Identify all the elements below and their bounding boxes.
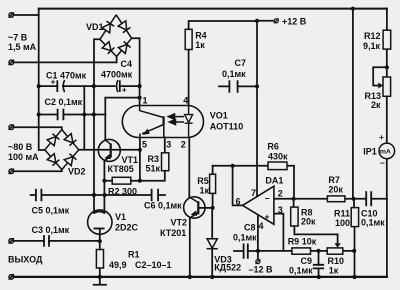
resistor R11 [351,208,358,227]
wire C5 C6 line [31,194,165,196]
wire DA1 output link [233,166,243,206]
node C1 line / V1 branch [92,84,96,88]
svg-text:2к: 2к [371,100,381,110]
svg-text:КД522: КД522 [214,263,241,273]
svg-text:–12 В: –12 В [249,265,274,275]
svg-text:+: + [265,212,270,222]
svg-text:3: 3 [278,205,283,215]
optocoupler VO1 body [122,106,203,138]
svg-text:0,1мк: 0,1мк [289,266,313,276]
svg-text:C7: C7 [235,58,247,68]
svg-text:R3: R3 [148,154,160,164]
diode VD3 [207,239,218,249]
svg-text:АОТ110: АОТ110 [210,122,243,132]
svg-text:R11: R11 [334,209,350,219]
node V1 cathode / R1 [98,239,102,243]
node C4 line right [138,84,142,88]
svg-text:51к: 51к [146,164,161,174]
optocoupler light arrows [168,114,184,125]
svg-text:4: 4 [259,221,264,231]
svg-text:−: − [265,194,270,204]
node C5 line / V1 right [103,193,107,197]
svg-text:+12 В: +12 В [282,17,307,27]
wire VT1 emitter vertical [103,161,105,213]
wire terminal ~7V lower to VD1 bottom vertex [14,57,117,63]
node C2 line left [37,112,41,116]
svg-text:C5 0,1мк: C5 0,1мк [32,206,70,216]
svg-text:C1 470мк: C1 470мк [46,71,87,81]
wire pin3 to R3 top [164,138,166,153]
tube V1 [88,210,112,234]
svg-text:2: 2 [278,189,283,199]
wire R8 drop [294,199,338,244]
wire branch C1 line to VD2 right vertex [83,86,85,150]
wire bottom rail [14,276,387,278]
terminal ~80V upper [9,125,14,130]
node pin1 junction [138,96,142,100]
svg-text:C4: C4 [121,59,133,69]
svg-text:C2 0,1мк: C2 0,1мк [45,97,83,107]
node pin5 / VT1 base [138,148,142,152]
wire C8 leads [234,250,258,252]
wire VD1 left vertex down to V1 [94,39,100,213]
node rail / R11 line [352,275,356,279]
wire DA1 pin4 to -12V [257,215,259,260]
svg-text:1к: 1к [329,266,339,276]
resistor R8 [291,207,298,226]
resistor R13 potentiometer [383,77,391,96]
capacitor C7 [229,80,237,93]
svg-text:R4: R4 [195,31,207,41]
wire C7 leads [219,85,257,87]
svg-text:mA: mA [380,149,391,156]
wire pin2 line to R7 [274,198,354,200]
capacitor C9 [313,265,324,269]
svg-text:R6: R6 [267,142,279,152]
svg-text:0,1мк: 0,1мк [233,233,257,243]
capacitor C2 [58,109,64,121]
wire feedback line R6 [213,166,294,199]
wire R3 bottom link [140,171,165,181]
terminal +12V [274,18,279,23]
svg-text:4: 4 [183,96,188,106]
node feedback / output [231,164,235,168]
wire pin5 vertical [139,138,141,181]
svg-text:~80 В: ~80 В [8,142,33,152]
resistor R9 [292,248,311,254]
capacitor C6 [152,189,159,202]
svg-text:+: + [379,132,384,142]
node +12V rail junction [255,19,259,23]
svg-text:С2–10–1: С2–10–1 [135,260,172,270]
wire top rail [39,8,387,10]
wire left vertical to VD2 left vertex [39,9,45,150]
terminal output lower [9,274,14,279]
wire R5 [212,166,214,208]
node R2 left / VT1 emitter [102,179,106,183]
resistor R12 [383,30,391,49]
wire meter chain [386,49,388,199]
op-amp DA1 [243,186,274,224]
node R7 / R11 / C10 [352,197,356,201]
node C2 line branch B [92,112,96,116]
svg-text:R10: R10 [328,256,345,266]
wire C9 [318,251,320,277]
resistor R5 [210,174,216,193]
wire pin3 down [274,214,284,251]
capacitor C4 [117,80,120,92]
svg-text:R12: R12 [364,31,381,41]
node top rail junction [351,7,355,11]
wire R13 wiper [373,67,387,85]
resistor R3 [162,153,169,171]
wire R11 vertical [353,199,356,277]
svg-text:~7 В: ~7 В [8,33,28,43]
wire VD1 right vertex down to optocoupler pin1 [132,38,140,105]
node C7 / pin7 line [255,84,259,88]
wire right top vertical [352,9,354,199]
svg-text:9,1к: 9,1к [363,41,381,51]
wire pin2 to VT2 collector [188,138,190,198]
node R12 / R13 wiper [385,65,389,69]
svg-text:2: 2 [181,140,186,150]
svg-text:VT2: VT2 [171,218,188,228]
meter IP1 [379,143,395,159]
svg-text:5: 5 [142,140,147,150]
wire C1 C4 line [39,85,140,87]
svg-text:КТ805: КТ805 [108,164,134,174]
node VT2 base / R5 / VD3 [211,206,215,210]
node rail / VD3 [210,275,214,279]
svg-text:C6 0,1мк: C6 0,1мк [144,201,182,211]
svg-text:R1: R1 [128,250,140,260]
svg-text:C9: C9 [301,256,313,266]
capacitor C8 [244,244,248,259]
resistor R2 [112,177,131,184]
bridge VD2 [45,130,79,170]
svg-text:DA1: DA1 [265,176,283,186]
wire output line C3 [14,240,100,242]
wire V1 cathode to R1 [99,229,101,250]
svg-text:VD2: VD2 [68,167,86,177]
wire C2 line [39,114,106,116]
resistor R1 [96,250,103,269]
svg-text:R2 300: R2 300 [108,187,137,197]
resistor R4 [185,29,192,49]
wire VD3 link [211,208,213,277]
terminal -12V [256,259,261,264]
wire R1 bottom to rail and ground [94,268,106,285]
node R9 / R10 / C9 [316,249,320,253]
svg-text:4700мк: 4700мк [101,70,133,80]
transistor VT2 [184,197,205,218]
svg-text:+: + [122,85,127,95]
svg-text:VD1: VD1 [86,22,104,32]
wire terminal ~7V upper [14,14,39,16]
svg-text:−: − [380,158,385,168]
svg-text:1к: 1к [200,186,210,196]
terminal ~7V upper [9,12,14,17]
bridge VD1 [100,15,132,57]
wire pin1 to VT1 collector [105,98,139,141]
node R10 right [352,249,356,253]
svg-text:0,1мк: 0,1мк [222,69,246,79]
capacitor C1 [57,80,64,92]
svg-text:R5: R5 [197,176,209,186]
svg-text:C8: C8 [244,223,256,233]
svg-text:IP1: IP1 [363,147,377,157]
wire VD2 right vertex base line to pin5 [79,149,140,151]
svg-text:R7: R7 [328,175,340,185]
terminal output upper [9,238,14,243]
terminal ~80V lower [9,169,14,174]
node pin2 / R8 [292,197,296,201]
node rail / VT2 emitter [188,275,192,279]
node rail / R1 ground [98,275,102,279]
capacitor C10 [366,191,371,206]
node C2 line branch A [82,112,86,116]
node C1 line left [37,84,41,88]
svg-text:1к: 1к [195,40,205,50]
svg-text:6: 6 [236,197,241,207]
wire optocoupler pin4 to R4 [188,50,190,106]
svg-text:VO1: VO1 [210,111,228,121]
capacitor C5 [36,189,42,202]
svg-text:3: 3 [166,140,171,150]
svg-text:20к: 20к [301,217,316,227]
svg-text:ВЫХОД: ВЫХОД [8,254,43,264]
node C8 / -12V [256,249,260,253]
svg-text:R9 10к: R9 10к [288,237,317,247]
node R2 right / R3 [138,179,142,183]
wire VT2 base to node [198,207,212,209]
optocoupler LED [185,106,193,138]
wire -12 line to R9 R10 [258,250,354,252]
node C5 line / V1 left [92,193,96,197]
wire terminal ~80V upper to VD2 top [14,127,62,129]
terminal ~7V lower [9,60,14,65]
wire R2 line [104,180,139,182]
svg-text:20к: 20к [328,185,343,195]
svg-text:1: 1 [143,96,148,106]
wire VT2 emitter down [189,218,191,277]
svg-text:49,9: 49,9 [109,260,127,270]
wire R12 drop [386,9,388,31]
svg-text:100: 100 [335,218,350,228]
node rail / C9 [317,275,321,279]
capacitor C3 [44,235,49,247]
resistor R10 potentiometer [327,248,343,254]
wire R4 top +12 rail [189,21,274,30]
svg-text:2D2C: 2D2C [115,223,139,233]
svg-text:100 мА: 100 мА [8,152,39,162]
svg-text:430к: 430к [268,151,288,161]
resistor R7 [327,196,345,202]
optocoupler phototransistor [140,106,164,138]
svg-text:V1: V1 [115,212,126,222]
svg-text:1,5 мА: 1,5 мА [8,42,37,52]
wire terminal ~80V lower to VD2 bottom [14,170,62,172]
resistor R6 [268,162,287,170]
svg-text:0,1мк: 0,1мк [361,218,385,228]
svg-text:C3 0,1мк: C3 0,1мк [32,225,70,235]
wire pin7 vertical [256,21,258,197]
wire C10 leads [354,198,387,200]
transistor VT1 [98,139,120,161]
svg-text:7: 7 [251,188,256,198]
svg-text:КТ201: КТ201 [160,228,186,238]
